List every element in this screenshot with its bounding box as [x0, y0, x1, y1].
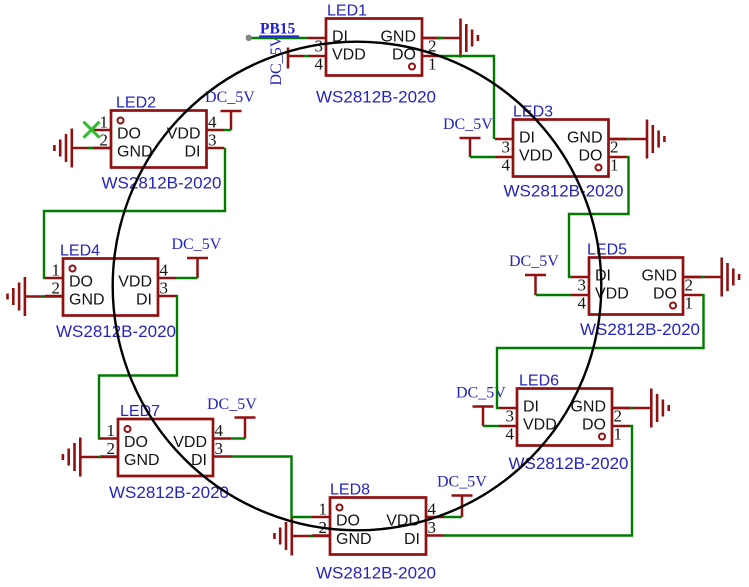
net port dot PB15: [246, 35, 252, 41]
ground symbol for LED8 GND: [274, 517, 330, 556]
svg-text:2: 2: [614, 407, 623, 426]
svg-text:DO: DO: [582, 417, 606, 434]
svg-text:3: 3: [208, 131, 217, 150]
svg-text:1: 1: [685, 294, 694, 313]
svg-text:DI: DI: [185, 144, 201, 161]
svg-text:LED1: LED1: [327, 3, 367, 20]
ground symbol for LED1 GND: [422, 19, 478, 58]
wire LED3 GND to ground: [627, 138, 630, 140]
wire LED4 DO to LED2 DI: [44, 148, 225, 278]
no-connect X marker on LED2 DO: [84, 122, 100, 138]
svg-text:DC_5V: DC_5V: [456, 385, 506, 402]
svg-text:LED8: LED8: [330, 482, 370, 499]
svg-text:LED5: LED5: [587, 242, 627, 259]
svg-text:DC_5V: DC_5V: [268, 35, 285, 85]
svg-text:DC_5V: DC_5V: [172, 236, 222, 253]
svg-text:3: 3: [578, 276, 587, 295]
svg-text:DO: DO: [117, 126, 141, 143]
svg-text:DO: DO: [124, 434, 148, 451]
svg-text:VDD: VDD: [332, 47, 366, 64]
wire PB15 to LED1 DI: [249, 37, 308, 39]
wire LED3 DO to LED5 DI: [569, 157, 629, 277]
svg-text:LED7: LED7: [120, 403, 160, 420]
ground symbol for LED4 GND: [8, 277, 64, 316]
svg-text:2: 2: [610, 138, 619, 157]
ground symbol for LED6 GND: [612, 389, 669, 428]
svg-text:VDD: VDD: [519, 148, 553, 165]
LED3 WS2812B-2020 component body: [495, 120, 627, 177]
LED5 WS2812B-2020 component body: [571, 258, 701, 315]
svg-text:LED2: LED2: [116, 95, 156, 112]
wire LED4 GND to ground: [42, 295, 45, 297]
wire LED7 GND to ground: [98, 456, 101, 458]
svg-text:4: 4: [578, 294, 587, 313]
wire LED5 GND to ground: [702, 276, 705, 278]
net label PB15 underline: [259, 35, 299, 37]
ground symbol for LED2 GND: [54, 129, 112, 168]
svg-text:4: 4: [502, 156, 511, 175]
svg-text:WS2812B-2020: WS2812B-2020: [316, 564, 436, 583]
svg-text:WS2812B-2020: WS2812B-2020: [101, 173, 221, 192]
svg-text:1: 1: [428, 55, 437, 74]
svg-text:WS2812B-2020: WS2812B-2020: [316, 88, 436, 107]
svg-text:GND: GND: [336, 531, 372, 548]
power symbol DC_5V for LED3: [460, 138, 481, 157]
svg-text:3: 3: [215, 439, 224, 458]
svg-text:DI: DI: [595, 268, 611, 285]
svg-text:4: 4: [315, 55, 324, 74]
svg-text:GND: GND: [567, 130, 603, 147]
wire DC_5V to LED7 VDD: [231, 437, 245, 439]
power symbol DC_5V for LED6: [473, 407, 494, 427]
svg-text:DI: DI: [404, 531, 420, 548]
svg-text:GND: GND: [69, 292, 105, 309]
wire LED8 GND to ground: [310, 535, 313, 537]
svg-text:DC_5V: DC_5V: [207, 396, 257, 413]
LED7 WS2812B-2020 component body: [100, 419, 231, 476]
svg-text:DC_5V: DC_5V: [205, 89, 255, 106]
wire LED5 DO to LED6 DI: [497, 295, 704, 408]
guide circle (LED ring outline): [113, 42, 602, 531]
power symbol DC_5V for LED5: [525, 275, 546, 295]
wire DC_5V to LED1 VDD: [304, 55, 309, 57]
ground symbol for LED3 GND: [609, 120, 665, 159]
LED8 WS2812B-2020 component body: [312, 498, 444, 555]
svg-text:4: 4: [428, 500, 437, 519]
wire DC_5V to LED6 VDD: [483, 425, 499, 427]
ground symbol for LED5 GND: [683, 258, 739, 297]
svg-text:DC_5V: DC_5V: [509, 253, 559, 270]
svg-text:1: 1: [52, 261, 61, 280]
svg-text:4: 4: [160, 261, 169, 280]
wire LED8 DO to LED7 DI: [231, 457, 312, 518]
svg-text:4: 4: [506, 425, 515, 444]
svg-text:4: 4: [215, 421, 224, 440]
svg-text:DO: DO: [336, 513, 360, 530]
svg-text:WS2812B-2020: WS2812B-2020: [109, 483, 229, 502]
svg-text:DI: DI: [519, 130, 535, 147]
svg-text:3: 3: [506, 407, 515, 426]
svg-text:WS2812B-2020: WS2812B-2020: [503, 181, 623, 200]
LED6 WS2812B-2020 component body: [499, 389, 630, 446]
svg-text:DO: DO: [579, 148, 603, 165]
ground symbol for LED7 GND: [63, 438, 118, 477]
power symbol DC_5V for LED4: [187, 258, 208, 278]
wire DC_5V to LED3 VDD: [470, 156, 495, 158]
svg-text:1: 1: [610, 156, 619, 175]
wire LED7 DO to LED4 DI: [99, 296, 177, 439]
svg-text:LED6: LED6: [519, 373, 559, 390]
svg-text:DI: DI: [136, 292, 152, 309]
svg-text:GND: GND: [641, 268, 677, 285]
wire DC_5V to LED5 VDD: [536, 294, 572, 296]
wire DC_5V to LED8 VDD: [444, 516, 462, 518]
wire LED1 DO to LED3 DI: [440, 56, 494, 139]
power symbol DC_5V for LED8: [452, 496, 473, 518]
svg-text:DC_5V: DC_5V: [443, 116, 493, 133]
svg-text:2: 2: [107, 439, 116, 458]
power symbol DC_5V for LED2: [221, 111, 242, 130]
svg-text:1: 1: [107, 421, 116, 440]
svg-text:DC_5V: DC_5V: [437, 474, 487, 491]
wire DC_5V to LED4 VDD: [176, 277, 198, 279]
svg-text:GND: GND: [117, 144, 153, 161]
power symbol DC_5V for LED1 (rotated): [288, 48, 304, 69]
svg-text:2: 2: [685, 276, 694, 295]
LED1 WS2812B-2020 component body: [308, 19, 440, 76]
svg-text:LED4: LED4: [60, 243, 100, 260]
svg-text:VDD: VDD: [118, 274, 152, 291]
wire LED6 GND to ground: [631, 407, 634, 409]
svg-text:PB15: PB15: [260, 21, 296, 38]
svg-text:DI: DI: [523, 399, 539, 416]
wire DC_5V to LED2 VDD: [224, 129, 231, 131]
svg-text:3: 3: [502, 138, 511, 157]
wire LED6 DO to LED8 DI: [444, 426, 632, 536]
svg-text:GND: GND: [570, 399, 606, 416]
svg-text:VDD: VDD: [173, 434, 207, 451]
svg-text:1: 1: [100, 113, 109, 132]
LED4 WS2812B-2020 component body: [45, 259, 176, 316]
wire LED1 GND to ground: [437, 37, 443, 39]
svg-text:4: 4: [208, 113, 217, 132]
svg-text:GND: GND: [124, 452, 160, 469]
power symbol DC_5V for LED7: [235, 418, 256, 439]
svg-text:1: 1: [319, 500, 328, 519]
svg-text:DO: DO: [69, 274, 93, 291]
svg-text:1: 1: [614, 425, 623, 444]
wire LED2 GND to ground: [88, 147, 94, 149]
svg-text:2: 2: [52, 279, 61, 298]
svg-text:3: 3: [160, 279, 169, 298]
LED2 WS2812B-2020 component body: [93, 111, 225, 168]
svg-text:VDD: VDD: [523, 417, 557, 434]
svg-text:2: 2: [100, 131, 109, 150]
svg-text:3: 3: [428, 518, 437, 537]
svg-text:DO: DO: [653, 286, 677, 303]
